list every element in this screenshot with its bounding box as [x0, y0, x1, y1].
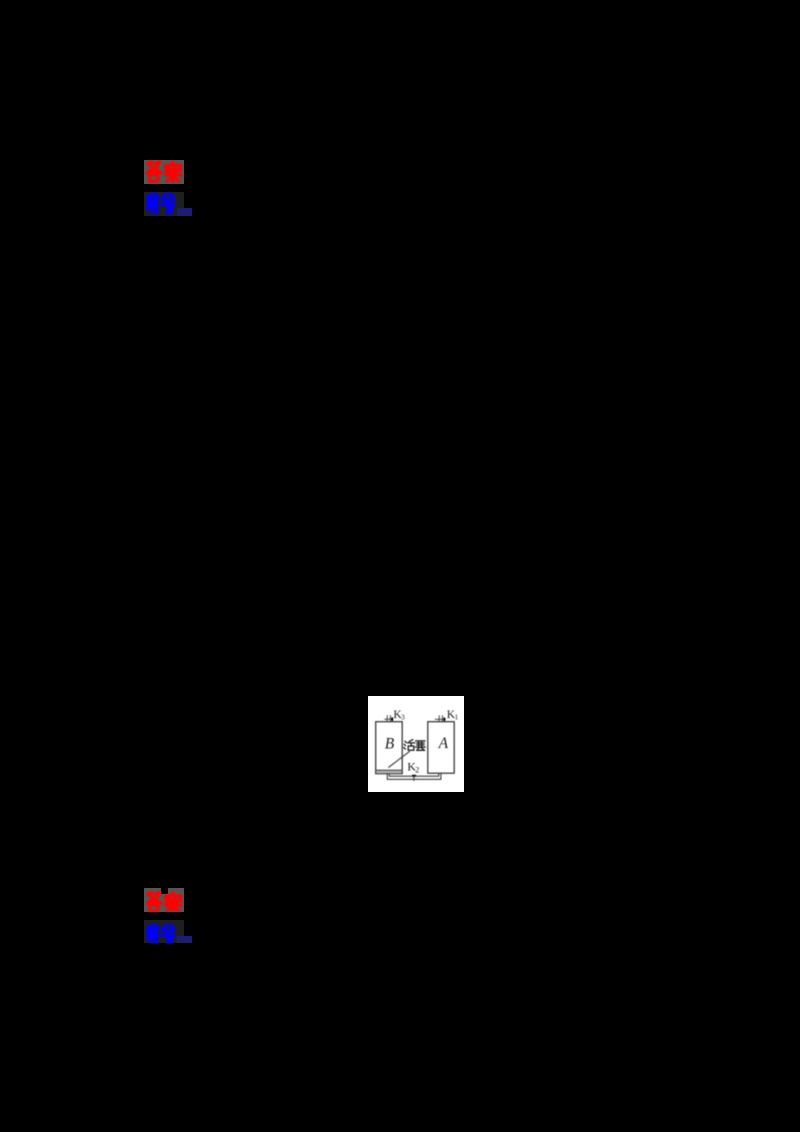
char da	[147, 162, 160, 166]
label huosai (piston)	[404, 740, 425, 751]
svg-text:3: 3	[401, 713, 405, 722]
dark navy block 1	[177, 208, 192, 216]
label K3	[393, 709, 405, 722]
valve K2 plug on tube	[412, 775, 416, 781]
dark navy block 2	[177, 936, 192, 944]
valve K3 symbol	[384, 715, 393, 721]
vessel B	[376, 722, 403, 774]
svg-text:1: 1	[455, 713, 459, 722]
answer tag 1 (red)	[144, 160, 184, 184]
vessel A	[428, 722, 454, 774]
physics diagram white panel	[368, 696, 464, 792]
analysis tag 2 (blue)	[144, 920, 184, 943]
char an	[166, 162, 181, 168]
label K2	[407, 760, 419, 775]
connecting tube inner wall	[389, 773, 438, 776]
label K1	[447, 709, 459, 722]
char xi	[162, 194, 175, 214]
pointer line to piston	[388, 751, 409, 767]
svg-text:B: B	[385, 735, 395, 752]
connecting tube outer wall	[387, 773, 441, 779]
valve K1 symbol	[435, 715, 446, 721]
char jie	[148, 194, 158, 213]
answer tag 2 (red)	[144, 888, 184, 912]
svg-text:A: A	[438, 735, 449, 752]
svg-text:2: 2	[415, 765, 419, 774]
analysis tag 1 (blue)	[144, 192, 184, 216]
piston in B	[376, 770, 401, 773]
letter B	[385, 735, 395, 752]
letter A	[438, 735, 449, 752]
